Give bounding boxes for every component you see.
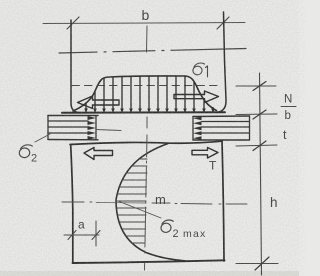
vertical centerline top dash	[146, 26, 149, 52]
extension line h top	[236, 145, 277, 146]
right plate block	[193, 116, 250, 140]
left flange hollow arrow	[78, 96, 120, 109]
svg-text:a: a	[78, 218, 85, 232]
sigma2max leader line	[118, 201, 161, 218]
label sigma1	[192, 63, 207, 77]
right dim tick 4	[255, 257, 269, 270]
svg-text:h: h	[270, 195, 278, 210]
horizontal dash-dot centerline	[59, 49, 246, 54]
svg-text:t: t	[283, 128, 287, 142]
svg-text:T: T	[209, 159, 217, 173]
sigma1 load curve	[73, 76, 217, 111]
a dimension line	[64, 234, 99, 236]
flange left edge	[71, 20, 79, 113]
right dim tick 1	[253, 82, 266, 91]
left plate block	[48, 116, 98, 140]
right dim tick 3	[253, 141, 266, 151]
left plate arrowheads	[88, 116, 97, 140]
svg-text:max: max	[183, 228, 206, 240]
right plate arrowheads	[193, 117, 202, 141]
svg-text:2: 2	[31, 153, 37, 165]
web rectangle bottom edge	[73, 260, 225, 263]
svg-text:b: b	[142, 7, 150, 23]
right flange hollow arrow	[174, 91, 219, 103]
right dimension line	[260, 73, 262, 275]
sigma2 leader line	[35, 134, 50, 142]
sigma1 arrows	[86, 76, 213, 110]
stray line right of left block	[96, 130, 121, 131]
label sigma2max	[160, 220, 206, 240]
extension line N/b top	[236, 85, 276, 87]
dimension b left tick	[67, 17, 79, 29]
a dimension right tick	[92, 231, 100, 240]
web rectangle top edge	[70, 141, 222, 144]
left web hollow arrow	[84, 148, 113, 160]
web rectangle right edge	[222, 141, 224, 262]
label sigma2	[19, 145, 37, 165]
vertical centerline plate dash	[146, 117, 148, 128]
svg-text:m: m	[155, 192, 166, 207]
svg-text:2: 2	[173, 228, 179, 240]
svg-text:b: b	[285, 110, 291, 122]
svg-text:N: N	[284, 94, 292, 106]
extension line h bottom	[236, 263, 278, 265]
right web hollow arrow	[192, 148, 218, 159]
parabola hatch lines	[116, 159, 147, 243]
flange right edge	[217, 12, 226, 113]
a extension vertical	[95, 221, 97, 246]
sigma1 dashed baseline	[72, 85, 222, 87]
dimension b line	[43, 23, 245, 24]
a dimension left tick	[68, 231, 76, 240]
extension line t top	[236, 113, 277, 116]
parabola sigma2 distribution	[116, 144, 186, 262]
web rectangle left edge	[71, 145, 73, 263]
flange bottom edge	[62, 111, 225, 113]
dimension b right tick	[217, 17, 229, 29]
m centerline horizontal dash-dot	[62, 202, 247, 204]
vertical centerline web dash-dot	[145, 135, 148, 270]
right dim tick 2	[253, 110, 266, 119]
sigma1 arrowheads	[84, 109, 215, 114]
